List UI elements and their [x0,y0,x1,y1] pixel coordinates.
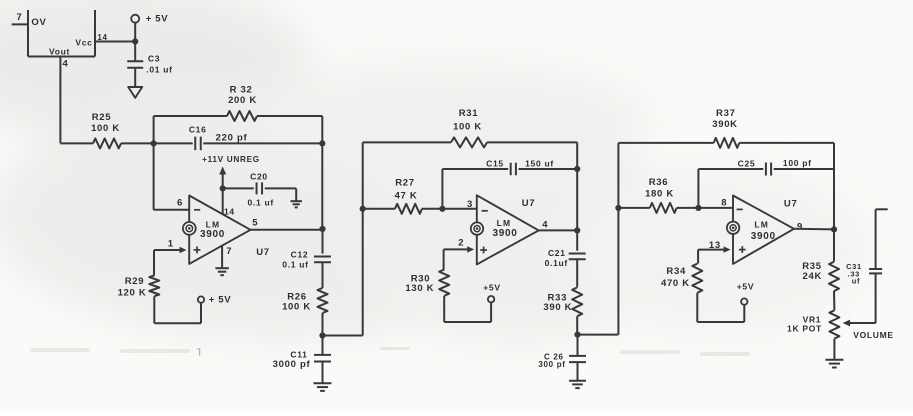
wire output stage 2 [539,229,578,231]
svg-text:+5V: +5V [483,283,500,293]
capacitor C26 [538,352,586,369]
wire + input down to R29 [153,250,155,275]
resistor R29 [118,275,160,298]
ground below C20 [290,201,302,207]
wire +5V terminal down to node [134,23,136,42]
node E (C11 junction) [319,332,325,338]
wire node B down to output node [321,143,323,228]
svg-text:5: 5 [252,218,258,229]
wire stage3 right vertical [833,143,835,230]
wire C26 to ground [577,362,579,380]
wire R32 line right segment [257,115,322,117]
svg-text:R31: R31 [459,108,479,119]
wire stage2 left vertical [362,142,364,335]
svg-text:100 K: 100 K [453,122,482,133]
ground below C26 [569,381,586,388]
wire wiper up to C31 [875,273,877,323]
svg-text:2: 2 [458,238,464,249]
svg-text:0.1 uf: 0.1 uf [247,198,273,208]
svg-text:9: 9 [797,221,803,232]
wire + input down to R34 [697,250,699,264]
svg-text:8: 8 [721,198,727,209]
svg-text:C12: C12 [291,250,309,260]
node D (stage1 output node) [319,226,325,232]
wire node E to C11 [322,336,324,355]
wire R33 to node J [576,316,578,334]
svg-text:24K: 24K [803,271,823,282]
resistor R34 [661,264,702,293]
label Vout [49,47,70,57]
svg-text:200 K: 200 K [228,95,257,106]
svg-text:100 K: 100 K [91,123,120,134]
wire input node down to - input [154,143,190,209]
svg-text:uf: uf [852,277,860,286]
svg-text:VOLUME: VOLUME [853,330,894,340]
svg-text:150 uf: 150 uf [525,158,554,168]
node A (stage1 input node) [151,140,157,146]
svg-text:220 pf: 220 pf [216,132,248,143]
wire stub up to +5V terminal stage1 [200,303,202,324]
svg-text:180 K: 180 K [645,189,674,200]
label U7 (stage 3) [784,198,798,209]
IC box (previous stage) outline [28,10,95,57]
resistor R27 [363,177,422,214]
wire R25 to input node [121,142,154,144]
resistor R33 [543,287,582,316]
wire R31 line left [363,141,451,143]
svg-text:C3: C3 [148,54,160,64]
svg-text:U7: U7 [784,198,798,209]
wire node L up to C25 line [697,169,699,208]
node G (stage2 - input junction) [439,206,445,212]
capacitor C12 [282,250,331,270]
node L (stage3 - input junction) [695,205,701,211]
svg-text:’|: ’| [197,347,201,356]
label Vcc [75,38,92,48]
svg-text:14: 14 [224,207,235,217]
resistor R36 [618,177,676,213]
noise mark [30,347,750,356]
+5V terminal stage 3 [737,282,754,305]
svg-text:100 K: 100 K [282,302,311,313]
svg-text:3: 3 [467,199,473,210]
potentiometer VR1 [787,310,839,338]
wire node L to - input [698,198,733,209]
label VOLUME [853,330,894,340]
svg-text:130 K: 130 K [405,283,434,294]
svg-text:3900: 3900 [200,229,225,240]
wire C16 to output vertical [203,142,322,144]
resistor R31 [451,108,487,147]
resistor R26 [282,288,327,313]
+5V terminal (top) [131,14,168,25]
wire R29 to bottom wire [154,296,201,323]
svg-text:R34: R34 [666,266,686,277]
wire node G up to C15 line [441,169,443,209]
wire + input down to R30 [443,249,445,269]
current mirror symbol U7b [471,222,483,234]
wire C3 to ground [134,68,136,87]
svg-text:U7: U7 [256,247,270,258]
svg-text:13: 13 [709,240,721,251]
svg-text:LM: LM [206,219,221,229]
svg-text:120 K: 120 K [118,287,147,298]
wire R37 line left [618,142,713,144]
+11V UNREG arrow [202,155,260,189]
node M (stage3 output node) [831,226,837,232]
wire right vertical R32 to C16 line [321,116,323,143]
svg-text:1K POT: 1K POT [787,324,822,334]
wire R27 to node G [422,208,442,210]
svg-text:300 pf: 300 pf [538,360,565,369]
svg-text:.01 uf: .01 uf [146,64,172,74]
wire output stage 1 [251,218,323,230]
svg-text:+ 5V: + 5V [146,14,169,25]
current mirror symbol U7a [183,222,196,235]
svg-text:7: 7 [17,12,23,23]
wire R31 line right [487,141,577,143]
node B (feedback/output vertical junction) [319,140,325,146]
wire node down to C3 [134,42,136,61]
node F (stage2 input node) [360,206,366,212]
node K (stage3 input node) [615,205,621,211]
wire R30 to bottom wire stage2 [444,296,491,322]
node C (pin14/C20 junction) [220,185,226,191]
wire R35 to VR1 [833,291,835,310]
pin 9 output label [797,221,803,232]
resistor R32 [227,85,257,122]
svg-text:3900: 3900 [751,231,776,242]
svg-text:0.1uf: 0.1uf [545,258,568,268]
wire R37 line right [739,142,834,144]
pin 14 wire up from op-amp [223,188,235,216]
op-amp U7 stage 2 triangle [477,195,539,264]
svg-text:C11: C11 [290,349,307,359]
node I (stage2 output node) [574,227,580,233]
svg-text:LM: LM [754,219,769,229]
node J (C26 junction) [574,332,580,338]
wire VR1 to ground [833,339,835,360]
wire stage2 right vertical [576,142,578,230]
wire stage3 left vertical [617,143,619,335]
svg-text:R 32: R 32 [230,85,253,96]
svg-text:OV: OV [31,17,46,28]
wire coupling stage1 to stage2 [323,335,363,337]
wire C31 up to stub [875,209,877,269]
svg-text:3900: 3900 [492,228,517,239]
svg-text:LM: LM [497,218,512,228]
wire C11 to ground [322,362,324,384]
svg-text:7: 7 [226,246,232,257]
wire R32 line left segment [154,115,227,117]
svg-text:C16: C16 [189,125,207,135]
wire R26 to node E [322,313,324,336]
resistor R37 [712,108,739,148]
op-amp U7 stage 3 triangle [733,196,794,264]
label 0V [31,17,46,28]
svg-text:1: 1 [168,238,174,249]
svg-text:4: 4 [542,220,548,231]
pin 7 wire down from op-amp [222,246,232,268]
wire output stage 3 [794,228,834,231]
svg-text:+5V: +5V [737,282,754,292]
wire C21 to R33 [576,259,578,287]
wire R34 to bottom wire stage3 [697,293,744,322]
capacitor C25 [698,158,811,176]
wire C15 to right vertical [519,168,578,170]
wire C25 to right vertical [774,168,834,170]
pin 14 wire from IC box to +5V node [95,33,135,42]
VR1 wiper arrow [843,320,876,327]
wire + input stage3 with arrow [698,240,731,253]
pin 4 wire from IC box down to R25 line [60,57,68,144]
pin 6 label [177,197,183,208]
capacitor C20 [223,172,274,208]
svg-text:470 K: 470 K [661,278,690,289]
ground (open triangle) below C3 [128,87,142,98]
svg-text:390 K: 390 K [543,302,572,313]
wire R36 to node L [677,207,699,209]
ground below VR1 [825,360,843,368]
wire node G to - input [442,199,476,210]
wire input node up to R32 line [153,116,155,143]
resistor R30 [405,270,449,296]
wire output node to C12 [322,229,324,254]
resistor R35 [802,261,839,291]
svg-text:R29: R29 [125,276,145,287]
op-amp U7 stage 1 triangle [189,196,250,264]
stub terminal top right [876,208,888,210]
svg-text:R27: R27 [395,177,415,188]
svg-text:+ 5V: + 5V [209,295,232,306]
node H (C15/right vertical) [574,166,580,172]
svg-text:C15: C15 [486,159,504,169]
svg-text:R37: R37 [716,108,736,119]
capacitor C15 [442,158,553,175]
svg-text:Vout: Vout [49,47,70,57]
wire C20 to ground [265,188,296,201]
capacitor C21 [545,248,586,268]
wire + input with arrow [154,238,187,253]
svg-text:Vcc: Vcc [75,38,92,48]
capacitor C31 [846,262,882,286]
ground below pin 7 [215,268,229,275]
svg-text:100 pf: 100 pf [783,158,812,168]
pin 7 stub of IC box [12,12,28,24]
svg-text:C25: C25 [738,158,756,168]
resistor R25 [91,112,121,148]
svg-text:6: 6 [177,197,183,208]
label U7 (stage 2) [522,198,536,209]
wire output node to C21 [576,230,578,250]
capacitor C11 [273,349,331,370]
wire coupling stage2 to stage3 [578,334,619,336]
svg-text:3000 pf: 3000 pf [273,359,311,370]
wire C12 to R26 [322,262,324,288]
svg-text:47 K: 47 K [395,190,418,201]
wire node J to C26 [577,335,579,356]
svg-text:390K: 390K [712,119,738,130]
svg-text:C21: C21 [548,248,566,258]
svg-text:C20: C20 [250,172,268,182]
label U7 (stage 1) [256,247,270,258]
wire stub up to +5V terminal stage3 [743,305,745,322]
+5V terminal stage 2 [483,283,500,303]
svg-text:14: 14 [97,33,107,42]
wire + input stage2 with arrow [444,238,475,253]
+5V terminal stage 1 [198,295,232,306]
pin 4 output label [542,220,548,231]
svg-text:R25: R25 [92,112,112,123]
wire output node to R35 [833,229,835,261]
ground below C11 [314,383,332,391]
wire pin4 line to R25 [60,142,93,144]
svg-text:+11V UNREG: +11V UNREG [202,155,260,164]
svg-text:4: 4 [63,59,69,70]
svg-text:0.1 uf: 0.1 uf [282,260,308,270]
capacitor C3 [127,54,173,75]
capacitor C16 [154,125,248,151]
node at Vcc/+5V/C3 junction [132,38,138,44]
wire stub up to +5V terminal stage2 [490,302,492,322]
current mirror symbol U7c [727,222,739,234]
svg-text:R36: R36 [649,177,669,188]
svg-text:U7: U7 [522,198,536,209]
